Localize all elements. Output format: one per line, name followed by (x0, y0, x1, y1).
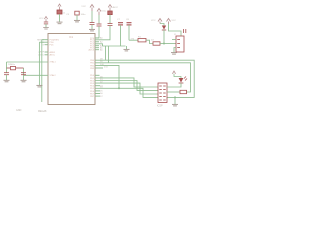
supply VCC arrow col3 (97, 9, 101, 16)
wire net D0 to ISP row1 (95, 78, 158, 87)
ground col1 (74, 20, 80, 22)
wire col1 down (76, 15, 78, 20)
wire reset net vertical long (41, 40, 43, 102)
ground below C2 (21, 80, 27, 82)
left pin labels (37, 39, 45, 56)
crystal Q1 (7, 66, 24, 69)
diode D1 (162, 26, 166, 31)
wire col4 cap to pin row2 (95, 26, 110, 40)
wire net D2 to ISP row3 (95, 83, 158, 94)
wire C1 to ground (6, 75, 8, 80)
svg-text:GND: GND (16, 109, 22, 112)
svg-text:ICSP: ICSP (157, 105, 163, 108)
capacitor C5 col3 (97, 24, 102, 26)
wire crystal right leg (23, 68, 25, 75)
svg-text:ADC6: ADC6 (88, 49, 94, 52)
supply VCC arrow topright2 (167, 19, 171, 25)
svg-text:VCC: VCC (81, 6, 86, 8)
capacitor C4 col2 (90, 23, 95, 25)
wire arrow2 down and right (169, 24, 182, 36)
wire cluster B down (59, 14, 61, 22)
wire J1 pin3 to ground (174, 48, 176, 53)
svg-text:VCC: VCC (102, 11, 107, 13)
supply VCC arrow col4 (108, 5, 112, 11)
wire pin row4 to node line (95, 44, 103, 46)
ground below J1 (171, 53, 177, 55)
diode D2 body (153, 42, 160, 45)
svg-text:MEGA8: MEGA8 (38, 110, 47, 113)
IC1 right pin stubs (95, 38, 103, 96)
wire RX jog (42, 39, 45, 41)
wire ISP gnd drop (174, 97, 176, 104)
wire bus line1 top (95, 60, 194, 97)
ground below C1 (4, 80, 10, 82)
wire R1 to D1 node (146, 40, 153, 43)
connector ISP J2 (158, 83, 167, 103)
capacitor C1 (4, 73, 9, 75)
svg-text:VCC: VCC (151, 20, 156, 22)
wire gnd net vertical (38, 42, 40, 85)
ground mid (124, 49, 130, 51)
wire col2 cap to ground (91, 25, 93, 30)
supply VCC arrow cluster B (58, 4, 61, 10)
capacitor C3 with ground col1 (66, 11, 86, 16)
wire col6 to R1 (129, 39, 138, 41)
ground cluster B (57, 22, 63, 24)
wire LED to ISP (167, 83, 181, 87)
supply VCC arrow topright1 (158, 19, 162, 24)
svg-text:AVCC: AVCC (50, 54, 56, 57)
wire col3 cap to pin row1 (95, 26, 99, 38)
wire col4 down (109, 15, 111, 24)
wire cluster A to ground (45, 24, 47, 27)
wire node to bus line2 (108, 46, 110, 63)
wire D2 to connector J1 (160, 43, 176, 45)
wire arrow1 to diode D1 (160, 24, 164, 26)
wire crystal left leg (6, 62, 8, 73)
wire bus line3 (95, 65, 119, 88)
inductor L1 cluster B (57, 10, 62, 14)
node junction gnd drop (174, 96, 176, 98)
node junction line3 (118, 87, 120, 89)
svg-text:16MHz: 16MHz (8, 64, 15, 66)
wire ISP to R2 (167, 91, 180, 93)
svg-text:AREF: AREF (50, 51, 56, 54)
ground below ISP (172, 104, 178, 106)
svg-text:VCC: VCC (39, 18, 44, 20)
wire col6 down (128, 25, 130, 40)
wire col2 down (91, 11, 93, 22)
pin names right inside IC1 (88, 38, 94, 98)
wire col3 down (98, 15, 100, 24)
resistor R2 (180, 90, 187, 93)
supply VCC arrow LED (172, 71, 181, 78)
svg-text:100n: 100n (81, 14, 87, 16)
right pin labels (100, 37, 109, 98)
capacitor C7 col5 (118, 23, 123, 25)
connector J1 (176, 36, 184, 52)
wire C2 to ground (23, 75, 25, 80)
op-amp U1 main IC body IC1 (48, 34, 95, 105)
resistor R1 (138, 39, 146, 42)
ground left of IC (36, 85, 42, 87)
capacitor C2 (21, 73, 26, 75)
capacitor C10 cluster A (44, 22, 48, 24)
capacitor C8 col6 (127, 23, 132, 25)
wire net D4 to ISP row4 (95, 88, 158, 97)
node junction diode chain (163, 43, 165, 45)
wire net XTAL2 horizontal (24, 74, 49, 76)
inductor L2 col4 (108, 11, 112, 15)
svg-text:AVCC: AVCC (113, 6, 119, 9)
svg-text:XTAL2: XTAL2 (50, 74, 57, 77)
svg-text:XTAL1: XTAL1 (50, 61, 57, 64)
wire col5 down to node line (120, 25, 122, 46)
pin names left inside IC1 (50, 40, 60, 78)
wire node line y46 (103, 45, 126, 47)
svg-text:IC1: IC1 (69, 35, 74, 39)
IC1 left pin stubs (45, 40, 49, 55)
wire gnd drop (126, 46, 128, 49)
svg-text:VCC: VCC (172, 20, 177, 22)
supply VCC arrow cluster A (44, 17, 47, 22)
LED D3 (179, 77, 187, 84)
wire TX jog (39, 41, 44, 43)
ground col2 (89, 29, 95, 31)
wire J1 pin1 stub (172, 39, 176, 41)
capacitor C9 (184, 29, 186, 33)
ground cluster A (43, 28, 49, 30)
wire net D1 to ISP row2 (95, 81, 158, 91)
wire D1 down to chain (163, 30, 165, 44)
wire bus line2 (95, 63, 191, 92)
wire net XTAL1 horizontal (7, 61, 49, 63)
capacitor C6 col4 (108, 24, 113, 26)
supply VCC arrow col2 (90, 5, 94, 12)
wire node to bus line1 (105, 46, 107, 60)
